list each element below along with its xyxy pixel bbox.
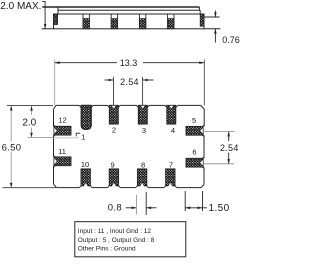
svg-text:6: 6: [192, 147, 196, 156]
svg-text:Other Pins : Ground: Other Pins : Ground: [78, 245, 136, 252]
svg-text:3: 3: [142, 126, 146, 135]
svg-text:7: 7: [169, 161, 173, 170]
svg-text:6.50: 6.50: [2, 142, 22, 153]
svg-text:13.3: 13.3: [120, 58, 138, 68]
svg-text:Output : 5 , Output Gnd : 8: Output : 5 , Output Gnd : 8: [78, 237, 155, 244]
svg-text:5: 5: [192, 116, 196, 125]
svg-text:1.50: 1.50: [209, 203, 230, 214]
svg-text:2: 2: [112, 126, 116, 135]
svg-text:9: 9: [111, 160, 115, 169]
svg-text:0.8: 0.8: [108, 202, 122, 213]
svg-text:11: 11: [58, 147, 66, 156]
svg-text:8: 8: [141, 161, 145, 170]
svg-text:2.54: 2.54: [220, 143, 239, 153]
svg-text:2.0: 2.0: [22, 117, 36, 128]
svg-text:2.54: 2.54: [120, 77, 139, 87]
svg-text:0.76: 0.76: [222, 35, 240, 45]
svg-text:12: 12: [58, 115, 66, 124]
svg-text:1: 1: [81, 132, 85, 141]
svg-text:10: 10: [81, 160, 89, 169]
svg-text:Input : 11 , Inout Gnd : 12: Input : 11 , Inout Gnd : 12: [78, 228, 152, 235]
svg-text:2.0 MAX.: 2.0 MAX.: [0, 1, 41, 12]
svg-text:4: 4: [171, 126, 175, 135]
